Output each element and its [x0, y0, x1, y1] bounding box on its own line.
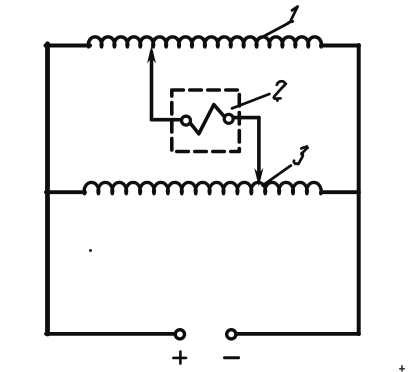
leader line to winding 1: [257, 23, 289, 40]
wire tap vertical: [150, 52, 154, 120]
wire top-right segment: [321, 44, 359, 48]
label −: [225, 356, 239, 359]
label 2: [274, 81, 286, 100]
wire bottom-left: [46, 332, 175, 336]
tap arrow on winding 3: [254, 168, 263, 187]
label 1: [289, 7, 298, 23]
terminal +: [175, 330, 184, 339]
wire bottom-right: [237, 332, 359, 336]
wire down vertical lead: [257, 118, 261, 172]
rheostat 2 left contact: [182, 116, 191, 125]
rheostat 2 sliding element: [190, 105, 224, 134]
dashed enclosure of rheostat 2: [172, 90, 240, 152]
winding 3: [84, 182, 321, 193]
label +: [173, 352, 186, 364]
wire middle-left segment: [46, 190, 85, 194]
winding 1: [88, 37, 321, 47]
wire rheostat to down lead: [234, 116, 260, 120]
wire middle-right segment: [321, 190, 359, 194]
tap arrow on winding 1: [147, 46, 156, 64]
wire right vertical: [357, 45, 361, 334]
rheostat 2 right contact: [224, 114, 233, 123]
wire left vertical: [45, 44, 50, 334]
wire top-left segment: [46, 44, 91, 48]
label 3: [294, 146, 308, 164]
terminal −: [227, 330, 236, 339]
leader line to rheostat 2: [232, 94, 269, 108]
wire tap horizontal to rheostat: [152, 118, 182, 122]
leader line to winding 3: [263, 166, 291, 186]
